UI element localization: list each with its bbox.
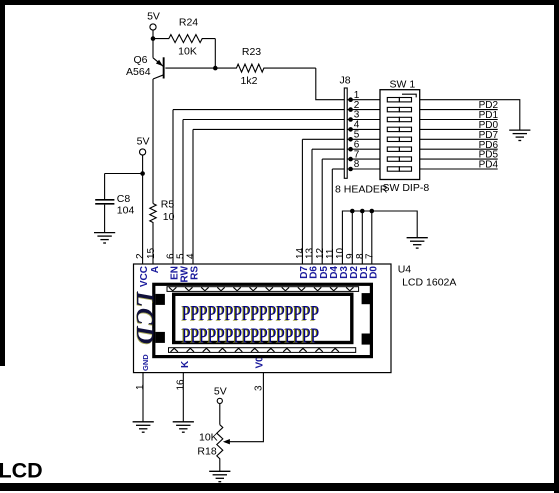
- svg-text:16: 16: [175, 379, 186, 391]
- svg-text:D0: D0: [368, 266, 379, 279]
- svg-text:10K: 10K: [178, 45, 197, 57]
- svg-text:8 HEADER: 8 HEADER: [335, 183, 388, 195]
- LCD top contact strip (zigzag): [167, 287, 359, 292]
- ground (C8): [94, 233, 115, 243]
- wire row 4 through SW1 to PD label: [347, 128, 498, 130]
- wire down to LCD pin 5: [182, 120, 184, 265]
- svg-text:A: A: [150, 266, 161, 273]
- junction J8 pin 1: [348, 97, 353, 102]
- svg-text:SW 1: SW 1: [390, 79, 416, 91]
- svg-text:1k2: 1k2: [241, 75, 258, 87]
- svg-text:A564: A564: [126, 66, 151, 78]
- junction J8 pin 5: [348, 137, 353, 142]
- junction ground bus: [370, 209, 375, 214]
- resistor R24 10K: [153, 35, 215, 43]
- ground (LCD pin 1): [133, 422, 154, 432]
- junction ground bus: [360, 209, 365, 214]
- LCD mounting tab: [362, 293, 371, 304]
- svg-text:10K: 10K: [199, 432, 218, 444]
- wire down to LCD pin 4: [192, 129, 194, 264]
- wire LCD pin 1 GND down: [142, 373, 144, 422]
- wire D3-D0 ground bus: [342, 211, 417, 264]
- resistor R23 1k2: [165, 64, 315, 72]
- wire down to LCD pin 12: [321, 159, 323, 264]
- power 5V supply (top, emitter of Q6): [147, 11, 160, 31]
- LCD mounting tab: [155, 332, 165, 343]
- wire Q6 collector down to R5: [152, 79, 154, 204]
- svg-text:3: 3: [253, 385, 264, 391]
- svg-text:8: 8: [354, 159, 360, 170]
- wire J8 pin 3 to LCD (horizontal): [183, 119, 344, 121]
- svg-text:5V: 5V: [147, 11, 160, 23]
- connector J8 8 HEADER body: [344, 88, 347, 178]
- potentiometer R18 10K: [217, 425, 223, 472]
- svg-text:GND: GND: [141, 354, 150, 371]
- svg-text:R18: R18: [197, 446, 216, 458]
- junction VCC/C8: [140, 171, 145, 176]
- wire J8 pin 2 to LCD (horizontal): [173, 109, 344, 111]
- LCD character row 1: [181, 302, 319, 326]
- wire down to LCD pin 13: [311, 149, 313, 264]
- svg-text:SW DIP-8: SW DIP-8: [383, 182, 430, 194]
- svg-text:104: 104: [117, 205, 135, 217]
- svg-text:PPPPPPPPPPPPPPPP: PPPPPPPPPPPPPPPP: [182, 324, 319, 347]
- wire down to LCD pin 11: [331, 169, 333, 264]
- wire LCD data pin at x=362.3 to ground bus: [361, 211, 363, 264]
- SW1 switch element 8: [387, 167, 411, 171]
- svg-text:LCD: LCD: [0, 459, 43, 483]
- ground (LCD pin 16): [173, 422, 194, 432]
- SW1 switch element 3: [387, 117, 411, 121]
- svg-text:PPPPPPPPPPPPPPPP: PPPPPPPPPPPPPPPP: [182, 302, 319, 325]
- SW1 switch element 4: [387, 127, 411, 131]
- wire LCD pin 16 K down: [182, 373, 184, 422]
- svg-text:5V: 5V: [137, 136, 150, 148]
- wire down to LCD pin 14: [301, 139, 303, 264]
- LCD module U4 outer box: [134, 264, 392, 373]
- SW1 switch element 7: [387, 157, 411, 161]
- svg-text:LCD: LCD: [131, 290, 158, 345]
- LCD mounting tab: [362, 334, 371, 345]
- junction ground bus: [350, 209, 355, 214]
- switch SW1 SW DIP-8 body: [380, 90, 420, 180]
- svg-text:VCC: VCC: [139, 266, 150, 287]
- wire J8 pin 1 row through SW1 to ground: [347, 100, 520, 130]
- svg-text:Q6: Q6: [133, 54, 147, 66]
- wire R24 right to base node: [214, 39, 216, 69]
- ground (J8 pin 1 / SW row 1): [509, 130, 530, 140]
- LCD module frame: [154, 284, 372, 356]
- svg-text:R24: R24: [179, 16, 198, 28]
- svg-text:U4: U4: [398, 264, 412, 276]
- wire 5V to Q6 emitter: [152, 30, 154, 58]
- wire down to LCD pin 6: [172, 110, 174, 264]
- SW1 switch element 6: [387, 147, 411, 151]
- svg-text:2: 2: [135, 253, 146, 259]
- wire row 5 through SW1 to PD label: [347, 138, 498, 140]
- svg-text:C8: C8: [117, 193, 131, 205]
- svg-text:4: 4: [186, 253, 197, 259]
- junction J8 pin 6: [348, 147, 353, 152]
- junction J8 pin 8: [348, 167, 353, 172]
- wire row 8 through SW1 to PD label: [347, 168, 498, 170]
- svg-text:1: 1: [135, 384, 146, 390]
- wire J8 pin 5 horizontal: [302, 138, 344, 140]
- SW1 actuator mark: [402, 94, 416, 97]
- junction 5V/R24: [151, 36, 156, 41]
- svg-text:R5: R5: [161, 198, 175, 210]
- junction J8 pin 7: [348, 157, 353, 162]
- svg-text:7: 7: [364, 253, 375, 259]
- svg-text:R23: R23: [242, 46, 261, 58]
- wire J8 pin 6 horizontal: [312, 148, 344, 150]
- capacitor C8 104: [95, 174, 114, 233]
- LCD character row 2: [181, 324, 319, 348]
- svg-text:J8: J8: [340, 75, 351, 87]
- svg-text:K: K: [180, 360, 191, 368]
- R18 wiper arrow: [223, 439, 230, 444]
- junction R24/base wire: [213, 66, 218, 71]
- LCD bottom contact strip (zigzag): [169, 348, 356, 353]
- LCD display bezel: [174, 294, 352, 342]
- wire row 6 through SW1 to PD label: [347, 148, 498, 150]
- wire row 2 through SW1 to PD label: [347, 109, 498, 111]
- wire J8 pin 7 horizontal: [322, 158, 344, 160]
- svg-text:5V: 5V: [214, 386, 227, 398]
- SW1 switch element 5: [387, 137, 411, 141]
- svg-text:PD4: PD4: [479, 160, 499, 171]
- power 5V supply (VCC): [137, 136, 150, 156]
- junction J8 pin 2: [348, 107, 353, 112]
- transistor Q6 A564 (PNP): [153, 57, 165, 79]
- wire to C8: [105, 173, 143, 175]
- wire J8 pin 8 horizontal: [332, 168, 344, 170]
- wire LCD data pin at x=352.3 to ground bus: [351, 211, 353, 264]
- junction J8 pin 4: [348, 127, 353, 132]
- wire LCD pin 3 V0 to R18 wiper: [229, 373, 264, 442]
- wire LCD data pin at x=371.8 to ground bus: [371, 211, 373, 264]
- ground (R18): [209, 471, 230, 481]
- svg-text:RS: RS: [190, 266, 201, 280]
- wire row 3 through SW1 to PD label: [347, 119, 498, 121]
- ground (D3-D0): [407, 238, 428, 248]
- wire J8 pin 4 to LCD (horizontal): [193, 128, 344, 130]
- power 5V supply (contrast pot): [214, 386, 227, 404]
- SW1 switch element 1: [387, 98, 411, 102]
- wire R23 to J8 pin 1: [316, 68, 344, 100]
- junction J8 pin 3: [348, 117, 353, 122]
- SW1 switch element 2: [387, 107, 411, 111]
- LCD mounting tab: [155, 294, 165, 305]
- LCD italic logo text: [130, 290, 158, 346]
- wire 5V to R18: [219, 404, 221, 425]
- wire row 7 through SW1 to PD label: [347, 158, 498, 160]
- svg-text:LCD 1602A: LCD 1602A: [402, 276, 456, 288]
- wire 5V to LCD pin 2 VCC: [142, 155, 144, 264]
- svg-text:15: 15: [146, 247, 157, 259]
- resistor R5 10: [150, 204, 156, 265]
